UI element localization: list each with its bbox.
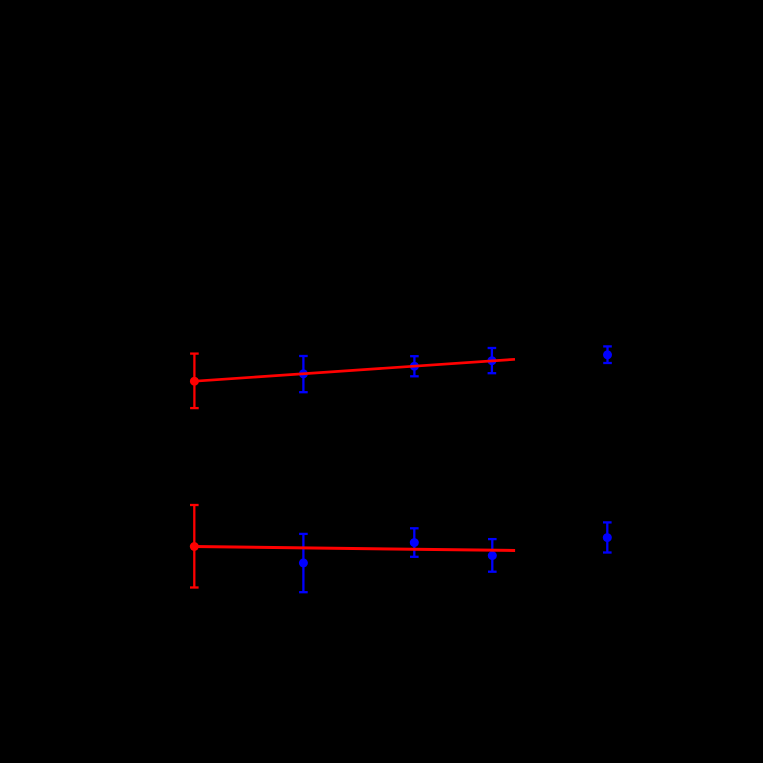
red point R1 errorbar	[190, 354, 199, 409]
blue point C2 marker	[488, 551, 497, 560]
blue point A2 errorbar	[299, 534, 308, 592]
red point R1 marker	[190, 377, 199, 386]
blue point B2 marker	[410, 538, 419, 547]
blue point D2 marker	[603, 533, 612, 542]
blue point B2 errorbar	[410, 528, 419, 557]
red point R2 errorbar	[190, 505, 199, 588]
blue point B1 marker	[410, 362, 419, 371]
blue point D1 errorbar	[603, 346, 612, 363]
blue point A1 marker	[299, 369, 308, 378]
red fit line 1 (top panel)	[194, 359, 515, 381]
red point R2 marker	[190, 542, 199, 551]
blue point D1 marker	[603, 350, 612, 359]
blue point B1 errorbar	[410, 356, 419, 376]
blue point C1 errorbar	[488, 348, 497, 373]
blue point A1 errorbar	[299, 356, 308, 392]
blue point C1 marker	[487, 356, 496, 365]
blue point D2 errorbar	[603, 522, 612, 552]
red fit line 2 (bottom panel)	[194, 547, 515, 551]
blue point A2 marker	[299, 558, 308, 567]
blue point C2 errorbar	[488, 539, 497, 572]
